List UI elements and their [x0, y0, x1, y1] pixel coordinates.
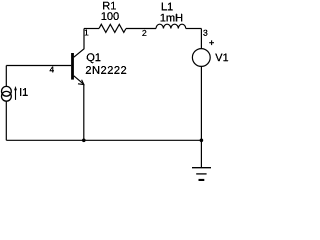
wire: bottom net from I1 to ground branch: [6, 139, 201, 141]
wire: node 3 down to V1 top terminal: [200, 29, 202, 49]
current direction arrow of I1: [14, 86, 17, 100]
node 1: [85, 30, 89, 36]
wire: base net (node 4) to Q1 base: [6, 65, 71, 67]
voltage source V1: [192, 49, 210, 67]
plus sign of V1: [209, 40, 214, 45]
label Q1: [87, 53, 101, 63]
wire: I1 bottom terminal down to bottom net: [5, 101, 7, 140]
node 2: [142, 30, 146, 36]
wire: left branch, base net corner down to I1 top terminal: [5, 66, 7, 87]
junction dot at ground branch/bottom net: [200, 139, 204, 143]
label L1: [162, 3, 173, 11]
transistor Q1 emitter lead: [74, 76, 84, 85]
label R1: [103, 2, 116, 10]
ground: [192, 168, 211, 180]
transistor Q1 emitter arrowhead: [78, 80, 84, 85]
wire: top net, collector corner to resistor R1 left lead: [84, 28, 99, 30]
node 3: [203, 30, 207, 36]
current source I1 (two overlapping circles): [2, 86, 12, 96]
value 2N2222: [86, 66, 126, 74]
junction dot at emitter/bottom net: [82, 139, 86, 143]
transistor Q1 collector lead: [74, 29, 84, 58]
transistor Q1 base bar: [71, 53, 74, 80]
wire: V1 bottom terminal down to ground junction: [200, 66, 202, 167]
label V1: [215, 54, 228, 62]
value 1mH: [161, 14, 182, 22]
wire: L1 right lead to node 3 corner: [186, 28, 202, 30]
wire: R1 right lead to inductor L1 (node 2): [126, 28, 156, 30]
value 100: [102, 12, 119, 20]
node 4: [50, 67, 54, 73]
label I1: [20, 88, 28, 96]
wire: Q1 emitter down to bottom net junction: [83, 84, 85, 140]
inductor L1: [156, 24, 186, 28]
resistor R1: [99, 24, 126, 32]
